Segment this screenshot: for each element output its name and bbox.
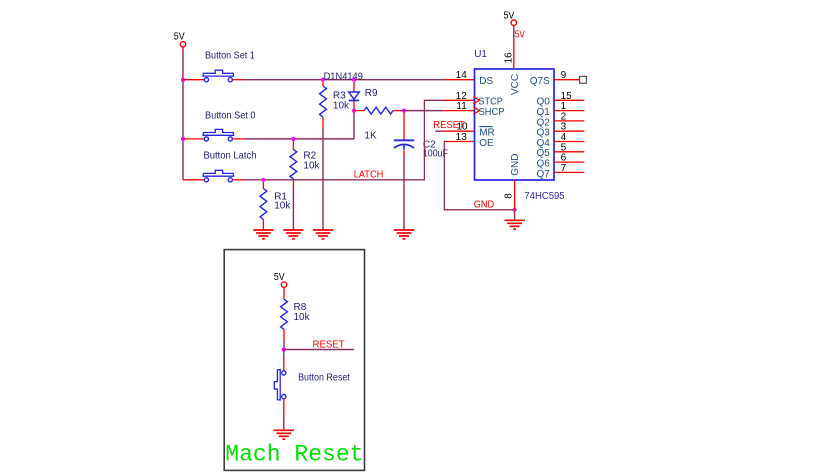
svg-text:GND: GND bbox=[474, 199, 495, 210]
svg-text:OE: OE bbox=[479, 138, 494, 149]
pushbutton SW Button Reset bbox=[282, 371, 286, 375]
svg-text:RESET: RESET bbox=[313, 339, 345, 350]
pin wire Q4 bbox=[554, 141, 584, 143]
svg-text:11: 11 bbox=[456, 101, 467, 112]
svg-text:Button Set 0: Button Set 0 bbox=[205, 110, 256, 121]
svg-text:16: 16 bbox=[503, 52, 514, 64]
ground (U1 GND) bbox=[504, 219, 524, 221]
svg-text:10k: 10k bbox=[333, 101, 350, 112]
ground (R2) bbox=[283, 229, 303, 231]
svg-text:Mach Reset: Mach Reset bbox=[225, 442, 363, 469]
pin wire Q3 bbox=[554, 130, 584, 132]
wire - SW1 to pin stub bbox=[232, 79, 244, 81]
pin 16 stub (VCC) bbox=[513, 38, 515, 69]
junction on bus at Button Set 0 row bbox=[181, 137, 185, 141]
svg-text:DS: DS bbox=[479, 76, 493, 87]
ground (C2) bbox=[394, 229, 414, 231]
svg-text:R9: R9 bbox=[365, 88, 378, 99]
pin wire Q6 bbox=[554, 161, 584, 163]
pushbutton SW Button Set 0 bbox=[204, 137, 208, 141]
capacitor C2 100uF bbox=[403, 113, 405, 140]
junction R1 top bbox=[261, 178, 265, 182]
diode D1 1N4149 bbox=[353, 82, 355, 92]
svg-text:5V: 5V bbox=[174, 31, 185, 42]
svg-text:10k: 10k bbox=[303, 160, 320, 171]
svg-text:74HC595: 74HC595 bbox=[524, 191, 565, 202]
svg-text:13: 13 bbox=[456, 132, 468, 143]
pushbutton SW Button Set 1 bbox=[204, 78, 208, 82]
resistor R8 bbox=[281, 299, 288, 329]
svg-text:Button Set 1: Button Set 1 bbox=[205, 50, 255, 61]
svg-text:1K: 1K bbox=[364, 130, 377, 141]
box Mach Reset border bbox=[224, 250, 364, 471]
svg-text:10k: 10k bbox=[274, 201, 291, 212]
clock arrow pin 12 bbox=[473, 97, 479, 105]
svg-text:5V: 5V bbox=[515, 30, 525, 41]
pin 14 stub (DS) bbox=[444, 79, 475, 81]
svg-text:U1: U1 bbox=[474, 49, 487, 60]
ground (R3) bbox=[313, 229, 333, 231]
resistor R3 bbox=[322, 82, 324, 86]
pin wire Q2 bbox=[554, 120, 584, 122]
ground (R1) bbox=[253, 229, 273, 231]
svg-text:SHCP: SHCP bbox=[479, 107, 505, 118]
ground (Mach Reset) bbox=[274, 429, 294, 431]
svg-text:GND: GND bbox=[510, 154, 521, 176]
wire - R3 to ground bbox=[322, 128, 324, 229]
clock arrow pin 11 bbox=[473, 107, 479, 115]
wire - OE down and to GND node bbox=[444, 142, 515, 210]
wire - SW2 to diode column bbox=[232, 138, 244, 140]
svg-text:Q7: Q7 bbox=[536, 169, 550, 180]
wire - button to ground bbox=[283, 399, 285, 415]
pin 10 stub (MR) bbox=[444, 130, 475, 132]
junction R3 top bbox=[321, 78, 325, 82]
wire - diode node down to Button Set 0 row bbox=[353, 113, 355, 139]
pin 13 stub (OE) bbox=[444, 141, 475, 143]
wire - RESET horizontal bbox=[284, 349, 354, 351]
svg-text:VCC: VCC bbox=[510, 74, 521, 95]
wire - bus to SW2 bbox=[183, 138, 204, 140]
wire - bus corner to SW3 bbox=[183, 179, 204, 181]
wire - GND node to ground symbol bbox=[514, 210, 516, 220]
wire - RESET stub bbox=[435, 130, 444, 132]
junction GND node below pin 8 bbox=[513, 208, 517, 212]
op-amp/IC U1 74HC595 body bbox=[475, 69, 555, 180]
wire - 5V to VCC pin bbox=[513, 28, 515, 38]
svg-text:LATCH: LATCH bbox=[354, 170, 384, 181]
svg-text:10k: 10k bbox=[294, 312, 311, 323]
resistor R9 1K bbox=[354, 110, 364, 112]
junction diode cathode / R9 left bbox=[352, 109, 356, 113]
svg-text:14: 14 bbox=[456, 70, 468, 81]
pin 12 stub (STCP) bbox=[444, 99, 475, 101]
resistor R1 bbox=[262, 182, 264, 189]
wire - junction to SHCP pin stub bbox=[404, 110, 443, 112]
pin 9 wire (Q7S) bbox=[554, 79, 580, 81]
wire - left 5V bus vertical bbox=[182, 51, 184, 180]
no-connect square pin 9 bbox=[580, 76, 587, 83]
junction on bus at Button Set 1 row bbox=[181, 78, 185, 82]
resistor R2 bbox=[292, 141, 294, 150]
wire - LATCH net to STCP bbox=[232, 179, 244, 181]
pushbutton SW Button Latch bbox=[204, 178, 208, 182]
junction diode anode bbox=[352, 78, 356, 82]
svg-text:Q7S: Q7S bbox=[530, 76, 550, 87]
junction R2 top bbox=[291, 137, 295, 141]
wire - bus to SW1 bbox=[183, 79, 204, 81]
pin 11 stub (SHCP) bbox=[443, 110, 475, 112]
svg-text:8: 8 bbox=[504, 193, 515, 199]
pin wire Q5 bbox=[554, 151, 584, 153]
wire - junction down to button bbox=[283, 350, 285, 359]
pin 8 stub (GND) bbox=[514, 180, 516, 210]
svg-text:D1N4149: D1N4149 bbox=[324, 71, 364, 82]
pin wire Q7 bbox=[554, 171, 584, 173]
pin wire Q0 bbox=[554, 99, 584, 101]
svg-text:Button Latch: Button Latch bbox=[204, 151, 257, 162]
junction R9 right / C2 / SHCP bbox=[402, 109, 406, 113]
pin wire Q1 bbox=[554, 110, 584, 112]
wire - R2 to ground bbox=[292, 190, 294, 229]
svg-text:Button Reset: Button Reset bbox=[298, 372, 350, 383]
wire - C2 to ground bbox=[403, 157, 405, 230]
wire - R8 to junction bbox=[283, 341, 285, 350]
junction RESET node bbox=[282, 347, 286, 351]
